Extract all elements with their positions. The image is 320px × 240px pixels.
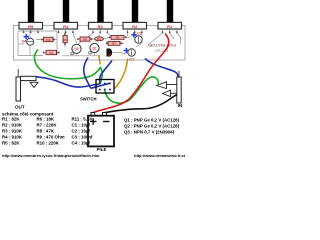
potentiometer R1 shaft <box>167 0 173 23</box>
svg-text:C1: C1 <box>129 58 134 62</box>
potentiometer R3 shaft <box>97 0 103 23</box>
FUZZ FACTORY silkscreen text (rotated 180) <box>147 43 176 53</box>
blue wire switch diagonal <box>91 83 110 88</box>
blue wire board to switch (left drop) <box>84 58 91 89</box>
potentiometer R4 body <box>54 22 78 32</box>
svg-text:R4 : 910K: R4 : 910K <box>2 135 23 140</box>
IN jack contact 2 <box>163 90 177 96</box>
svg-text:C3: C3 <box>49 51 53 55</box>
circuit board outline <box>14 26 186 61</box>
OUT jack barrel <box>16 77 21 101</box>
battery body <box>88 116 114 147</box>
svg-text:R4: R4 <box>63 24 69 29</box>
capacitor C1 body <box>128 49 135 56</box>
yellow wire board drop <box>99 55 101 65</box>
svg-text:http://www.membres.lycos.fr/da: http://www.membres.lycos.fr/danpseudo/ff… <box>2 153 100 158</box>
capacitor C3 <box>46 50 57 55</box>
diode D1 (oval) <box>95 37 104 41</box>
svg-text:Q3 : NPN 0,7 V (2N3904): Q3 : NPN 0,7 V (2N3904) <box>124 130 175 135</box>
transistor Q2 <box>71 44 81 55</box>
svg-text:R3 : 910K: R3 : 910K <box>2 129 23 134</box>
svg-text:R10 : 220K: R10 : 220K <box>37 141 60 146</box>
battery plus mark <box>90 118 97 125</box>
svg-text:FUZZ FACTORY: FUZZ FACTORY <box>147 43 176 47</box>
svg-text:IN: IN <box>178 103 183 108</box>
battery terminal - nub <box>103 113 107 116</box>
component list column 3 <box>72 117 94 146</box>
red wire board to battery <box>93 34 169 113</box>
svg-text:D1: D1 <box>97 37 101 41</box>
resistor R9 (vertical) <box>63 36 67 43</box>
switch box <box>96 80 114 94</box>
capacitor C1 plus sign <box>124 48 129 53</box>
OUT jack arm <box>21 76 37 80</box>
svg-text:R7: R7 <box>112 42 116 46</box>
svg-text:Q1 : PNP Ge 0,2 V (AC128): Q1 : PNP Ge 0,2 V (AC128) <box>124 118 180 123</box>
IN jack contact 1 <box>157 82 177 89</box>
blue wire OUT jack to switch <box>36 77 99 87</box>
svg-text:C2: C2 <box>137 31 142 35</box>
battery minus mark <box>103 121 110 123</box>
potentiometer R3 body <box>89 22 113 32</box>
svg-text:R1: R1 <box>167 24 173 29</box>
svg-text:Q3: Q3 <box>108 53 112 57</box>
svg-text:OUT: OUT <box>15 104 25 109</box>
trace junction dots <box>23 31 178 53</box>
resistor R7 <box>108 41 120 45</box>
svg-text:R1 : 82K: R1 : 82K <box>2 117 20 122</box>
switch contacts <box>99 83 111 91</box>
green wire switch to IN jack <box>105 77 159 103</box>
blue wire board to IN jack <box>145 58 178 76</box>
capacitor C2 body <box>135 36 142 43</box>
resistor R10 <box>44 37 54 42</box>
potentiometer R5 shaft <box>28 0 34 23</box>
potentiometer R5 body <box>19 22 43 32</box>
potentiometer R2 body <box>123 22 147 32</box>
resistor R8 <box>80 37 90 42</box>
svg-text:SWITCH: SWITCH <box>80 96 97 101</box>
svg-text:PILE: PILE <box>97 147 107 152</box>
svg-text:Q1: Q1 <box>92 46 96 50</box>
svg-text:R8: R8 <box>83 38 87 42</box>
green wire board to switch <box>34 50 102 84</box>
capacitor C4 plus sign <box>24 34 29 39</box>
board traces <box>18 31 181 56</box>
component list column 1 <box>2 117 23 146</box>
transistor Q3 (TO-92 half disc) <box>107 49 112 57</box>
svg-text:R10: R10 <box>46 38 52 42</box>
svg-text:Q2 : PNP Ge 0,2 V (AC128): Q2 : PNP Ge 0,2 V (AC128) <box>124 124 180 129</box>
svg-text:R7 : 220K: R7 : 220K <box>37 123 58 128</box>
black wire battery to IN jack <box>105 94 180 113</box>
svg-text:R3: R3 <box>98 24 104 29</box>
svg-text:C4 : 10µf: C4 : 10µf <box>72 141 91 146</box>
svg-text:R8 : 47K: R8 : 47K <box>37 129 55 134</box>
svg-text:R6: R6 <box>116 36 120 40</box>
transistor list <box>124 118 180 135</box>
component list column 2 <box>37 117 65 146</box>
capacitor C2 plus sign <box>131 32 136 37</box>
svg-text:R6 : 18K: R6 : 18K <box>37 117 55 122</box>
IN jack stub <box>178 71 180 77</box>
svg-text:R2 : 910K: R2 : 910K <box>2 123 23 128</box>
potentiometer R2 shaft <box>132 0 138 23</box>
svg-text:R11 : 5,1K: R11 : 5,1K <box>72 117 94 122</box>
battery terminal + nub <box>91 113 95 116</box>
potentiometer R4 shaft <box>63 0 69 23</box>
OUT jack stub <box>17 69 19 77</box>
potentiometer R1 body <box>158 22 182 32</box>
svg-text:C1 : 10µf: C1 : 10µf <box>72 123 91 128</box>
transistor Q1 <box>89 43 99 54</box>
svg-text:R5: R5 <box>28 24 34 29</box>
yellow wire switch to board <box>114 59 127 89</box>
resistor R6 <box>111 35 124 39</box>
svg-text:C3 : 100nf: C3 : 100nf <box>72 135 94 140</box>
capacitor C4 body <box>27 38 34 45</box>
svg-text:R2: R2 <box>132 24 138 29</box>
blue wire board to switch (right drop) <box>100 61 112 84</box>
OUT jack tip contact <box>30 82 38 87</box>
svg-text:R9: R9 <box>63 38 67 42</box>
svg-text:Q2: Q2 <box>74 47 78 51</box>
svg-text:R5 : 82K: R5 : 82K <box>2 141 20 146</box>
IN jack barrel <box>177 77 181 103</box>
svg-text:R9 : 470 Ohm: R9 : 470 Ohm <box>37 135 65 140</box>
svg-text:C2 : 10µf: C2 : 10µf <box>72 129 91 134</box>
svg-text:http://www.dreamwind.fr.st: http://www.dreamwind.fr.st <box>134 153 186 158</box>
